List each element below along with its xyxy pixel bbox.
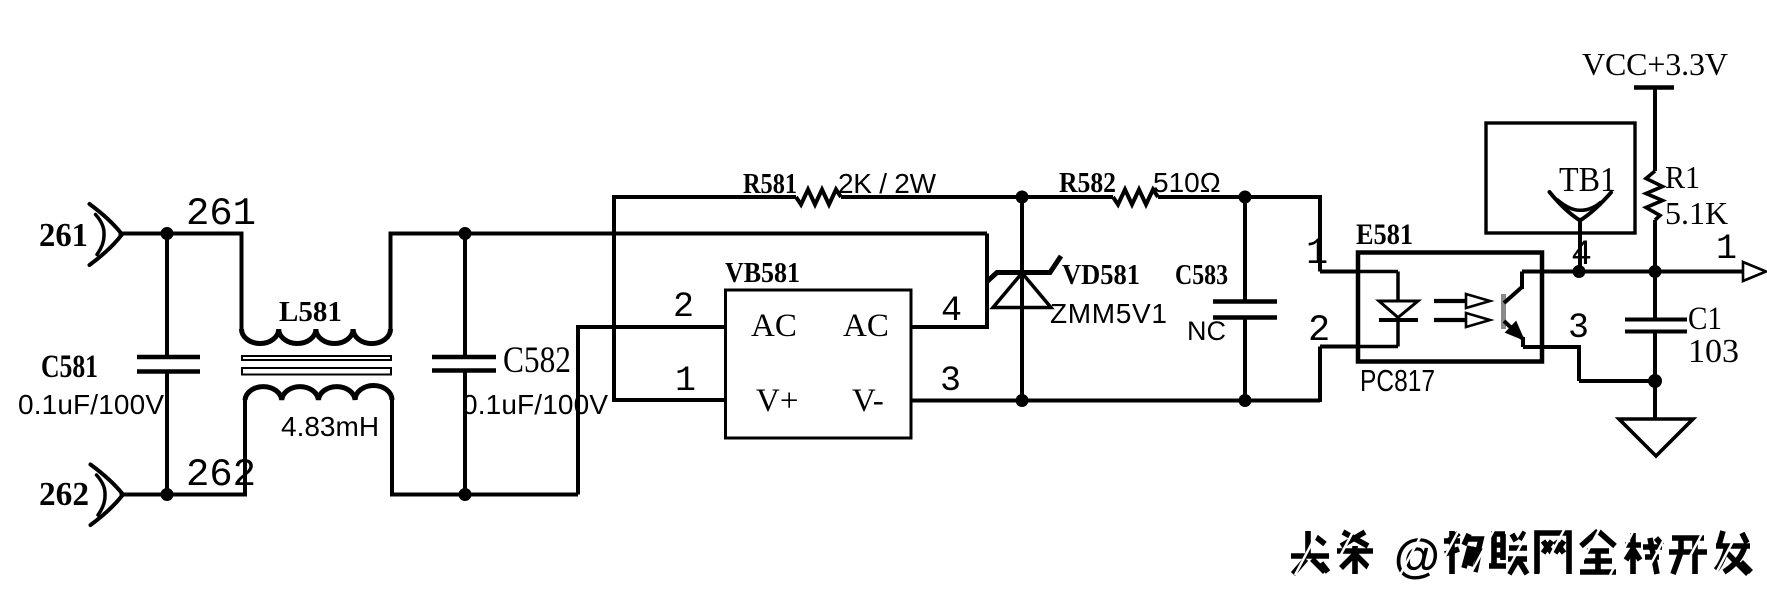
svg-text:0.1uF/100V: 0.1uF/100V [462, 389, 608, 420]
node zener top [1016, 191, 1029, 204]
opto LED diode [1379, 301, 1418, 320]
node TB1 stem [1573, 265, 1586, 278]
node on 261 at C581 [161, 227, 174, 240]
wire R581 top [612, 195, 796, 199]
svg-text:C1: C1 [1688, 301, 1722, 337]
svg-text:5.1K: 5.1K [1665, 195, 1728, 231]
connector TB1 box [1486, 123, 1635, 233]
svg-text:262: 262 [186, 453, 256, 497]
svg-text:103: 103 [1688, 333, 1739, 370]
svg-text:ZMM5V1: ZMM5V1 [1050, 298, 1167, 329]
node C583 top [1239, 191, 1252, 204]
opto light arrow upper [1434, 299, 1466, 303]
node R1 C1 [1649, 265, 1662, 278]
output arrow [1743, 262, 1766, 281]
wire 261 input [119, 232, 244, 236]
opto collector lead [1504, 272, 1522, 304]
wire pin4 of VB581 to 261 net [911, 234, 987, 330]
wire pin3 E581 [1523, 345, 1655, 381]
watermark [1291, 531, 1751, 574]
svg-text:C582: C582 [503, 340, 571, 381]
svg-text:AC: AC [751, 308, 797, 344]
svg-text:AC: AC [843, 308, 889, 344]
svg-text:VD581: VD581 [1062, 259, 1140, 291]
wire pin1 of VB581 [612, 398, 726, 402]
capacitor C581 [137, 234, 200, 495]
svg-text:VB581: VB581 [725, 258, 800, 289]
wire stub up from top winding [389, 234, 393, 332]
opto LED wiring [1358, 272, 1398, 347]
transformer core bars [242, 356, 391, 375]
svg-text:R1: R1 [1665, 159, 1700, 195]
svg-text:3: 3 [1568, 308, 1589, 348]
wire stub down from bottom winding right [390, 398, 394, 495]
node zener bottom [1016, 394, 1029, 407]
node C1 ground [1648, 374, 1662, 388]
wire E581 pin2 to bottom rail [1320, 347, 1358, 403]
svg-text:262: 262 [39, 476, 89, 513]
svg-text:PC817: PC817 [1360, 363, 1435, 398]
svg-text:4.83mH: 4.83mH [281, 411, 379, 442]
svg-text:C581: C581 [41, 349, 98, 385]
wire R1 to output node [1653, 220, 1657, 272]
node C583 bottom [1239, 394, 1252, 407]
svg-text:1: 1 [1716, 229, 1737, 269]
wire pin4 E581 output [1522, 270, 1743, 274]
node on 261 at C582 [459, 227, 472, 240]
opto phototransistor base bar [1501, 294, 1506, 329]
svg-text:R581: R581 [743, 168, 797, 200]
svg-text:V-: V- [852, 383, 884, 419]
ground [1619, 419, 1693, 456]
VCC rail bar [1634, 85, 1674, 90]
wire VCC to R1 [1653, 88, 1657, 172]
node on 262 at C582 [459, 488, 472, 501]
svg-text:2: 2 [1308, 310, 1330, 352]
zener diode VD581 [987, 197, 1061, 401]
opto emitter lead [1504, 321, 1523, 347]
wire R581 left vertical from V+ [612, 197, 616, 400]
connector 261 [90, 204, 123, 265]
svg-text:1: 1 [1306, 233, 1328, 275]
svg-text:VCC+3.3V: VCC+3.3V [1582, 46, 1728, 82]
inductor L581 bottom winding [245, 385, 392, 400]
connector 262 [91, 465, 124, 526]
opto light arrow lower [1434, 318, 1466, 322]
capacitor C582 [432, 234, 496, 495]
opto emitter arrow [1506, 322, 1525, 341]
svg-text:261: 261 [186, 192, 256, 236]
capacitor C583 [1213, 197, 1277, 401]
wire 261 continues to pin4 drop [389, 232, 988, 236]
bridge rectifier VB581 [726, 290, 912, 438]
optocoupler E581 box [1358, 253, 1542, 362]
wire TB1 stem [1578, 218, 1582, 272]
node on 262 at C581 [161, 488, 174, 501]
wire 262 continues to bridge pin2 drop [390, 493, 578, 497]
svg-text:261: 261 [39, 217, 88, 254]
wire pin2 of VB581 to 262 net [576, 327, 726, 495]
inductor L581 top winding [242, 329, 391, 344]
svg-text:V+: V+ [756, 383, 798, 419]
svg-text:L581: L581 [279, 296, 342, 328]
wire C1 to ground [1653, 381, 1657, 419]
wire R581 to zener node [841, 195, 1022, 199]
wire R582 segment [1022, 195, 1113, 199]
svg-text:NC: NC [1187, 316, 1226, 346]
wire pin3 of VB581 bottom rail [911, 399, 1320, 403]
svg-text:2K / 2W: 2K / 2W [838, 168, 937, 199]
svg-text:R582: R582 [1059, 167, 1116, 199]
svg-text:TB1: TB1 [1559, 160, 1616, 199]
TB1 arrow symbol [1550, 192, 1612, 221]
resistor R581 [796, 190, 841, 205]
svg-text:510Ω: 510Ω [1153, 167, 1221, 198]
resistor R582 [1113, 190, 1158, 205]
wire 262 input [120, 493, 248, 497]
svg-text:1: 1 [675, 361, 696, 401]
watermark white streaks [1295, 528, 1740, 575]
svg-text:E581: E581 [1356, 218, 1413, 251]
wire stub down to L581 top winding [240, 234, 244, 332]
resistor R1 [1646, 171, 1663, 220]
capacitor C1 [1625, 272, 1687, 382]
wire stub down from bottom winding left [243, 398, 247, 495]
svg-text:C583: C583 [1175, 259, 1228, 291]
svg-text:2: 2 [673, 287, 694, 327]
svg-text:0.1uF/100V: 0.1uF/100V [18, 389, 164, 420]
wire R582 to C583 node and E581 pin1 [1158, 195, 1358, 272]
svg-text:3: 3 [940, 361, 961, 401]
